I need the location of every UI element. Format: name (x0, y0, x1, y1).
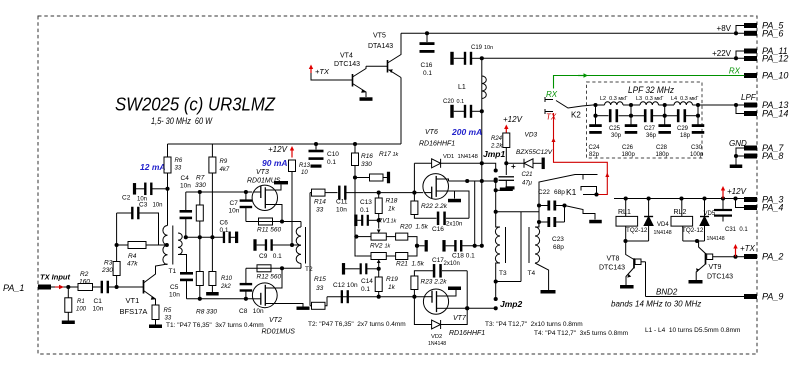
wire TX red route (554, 113, 608, 195)
capacitor C16 2x10n (414, 212, 469, 226)
svg-text:2x10n: 2x10n (446, 222, 462, 228)
resistor R18 1k (375, 193, 398, 214)
terminal R17 end (387, 172, 390, 184)
svg-text:0.1: 0.1 (327, 159, 336, 166)
svg-text:R13: R13 (299, 163, 311, 169)
node C23 left (537, 220, 541, 224)
svg-text:PA_14: PA_14 (762, 109, 788, 119)
capacitor C16 0.1 (top) (420, 33, 435, 77)
svg-text:LPF: LPF (741, 93, 757, 102)
capacitor C29 18p (677, 109, 691, 139)
node VT2 drain (280, 266, 284, 270)
node VD3 anode (504, 161, 508, 165)
label C3 10n (139, 202, 163, 209)
resistor R10 2k2 (209, 237, 233, 292)
node drain row b (480, 179, 484, 183)
arrow RX direction (578, 73, 588, 77)
label L1 (458, 84, 466, 91)
svg-text:+12V: +12V (268, 145, 288, 154)
wire R13 to T2 centre (291, 172, 293, 246)
label GND (729, 139, 747, 148)
svg-text:L1 - L4 10 turns D5.5mm 0.8mm: L1 - L4 10 turns D5.5mm 0.8mm (645, 327, 740, 334)
label VD3 (516, 132, 553, 157)
power +12V arrow (R24) (504, 125, 508, 134)
wire BND2 to PA_9 (646, 296, 745, 298)
svg-text:BND2: BND2 (656, 288, 678, 297)
svg-text:DTC143: DTC143 (334, 61, 360, 68)
node on +12V rail (702, 196, 706, 200)
svg-text:C28: C28 (656, 145, 668, 151)
node C8 gate (244, 297, 248, 301)
svg-text:PA_6: PA_6 (762, 29, 783, 39)
svg-text:TX: TX (546, 113, 557, 122)
svg-text:C10: C10 (327, 151, 339, 158)
inductor L1 (482, 76, 487, 99)
wire VT8 base from BND2 (645, 262, 647, 297)
svg-text:+: + (511, 162, 516, 171)
svg-text:T1: T1 (169, 268, 177, 275)
transformer T4 (528, 222, 549, 290)
note T3 winding (485, 321, 583, 328)
label TX Input (40, 273, 70, 282)
node R3 R4 (115, 243, 119, 247)
diode VD3 BZX55C12V (524, 159, 542, 168)
wire R24 to VD3 (506, 148, 524, 164)
svg-text:RL2: RL2 (674, 209, 687, 216)
label +12V (R24) (503, 115, 523, 124)
label C21 47u (522, 172, 533, 187)
svg-text:33: 33 (165, 316, 172, 322)
label LPF 32 MHz (628, 85, 674, 95)
wire +22V branch to PA_11 (736, 51, 745, 58)
wire drain to T2 bottom (300, 264, 302, 269)
wire riser VT6 drain tie (481, 58, 483, 163)
svg-text:R1: R1 (77, 299, 85, 305)
label C5 10n (169, 284, 180, 299)
svg-text:C8 10n: C8 10n (239, 308, 264, 315)
node LPF mid (663, 114, 667, 118)
svg-text:12 mA: 12 mA (140, 162, 166, 172)
label 90 mA (262, 158, 288, 168)
node LPF top (696, 103, 700, 107)
svg-text:PA_2: PA_2 (762, 252, 783, 262)
svg-text:RD16HHF1: RD16HHF1 (419, 141, 455, 148)
connector pad PA_11 (744, 46, 788, 56)
wire gate feedback wire VT6 (347, 192, 424, 194)
svg-text:R8 330: R8 330 (196, 309, 217, 316)
svg-text:T2: "P47 T6,35" 2x7 turns 0.4: T2: "P47 T6,35" 2x7 turns 0.4mm (308, 321, 406, 328)
diode VD1 1N4148 (414, 159, 481, 168)
label VT5 (368, 33, 393, 51)
capacitor C24 82p (589, 116, 602, 158)
terminal C18 left (417, 240, 428, 252)
ground R10 (206, 292, 219, 296)
svg-text:TQ2-12: TQ2-12 (626, 227, 648, 234)
note T4 winding (534, 330, 628, 337)
svg-text:DTC143: DTC143 (707, 274, 733, 281)
connector pad PA_10 (744, 71, 788, 81)
svg-text:10n: 10n (169, 292, 180, 299)
svg-text:C9 0.1: C9 0.1 (259, 253, 282, 260)
wire RX (green) (554, 76, 745, 89)
label C11 10n (336, 199, 348, 214)
svg-text:VT1: VT1 (126, 296, 140, 305)
svg-text:R4: R4 (128, 253, 137, 260)
svg-text:VD1 1N4148: VD1 1N4148 (443, 154, 478, 160)
wire bias rail RV2 (355, 237, 356, 256)
node VT3 drain (280, 219, 284, 223)
wire C23 right riser (564, 206, 566, 223)
svg-text:RX: RX (729, 67, 741, 76)
svg-text:0.1: 0.1 (220, 227, 229, 234)
svg-text:10n: 10n (229, 208, 240, 215)
node LPF out junction (734, 103, 738, 107)
label C1 10n (93, 298, 104, 313)
svg-text:1N4148: 1N4148 (707, 236, 725, 242)
wire drain to T2 top (300, 222, 302, 228)
label 12 mA (140, 162, 166, 172)
wire RL2 coil leads (682, 199, 683, 242)
svg-text:10: 10 (301, 170, 308, 176)
label C22 68p (538, 189, 565, 196)
wire gate bias rail +12V (168, 143, 402, 145)
svg-text:C14: C14 (361, 278, 373, 285)
svg-text:R24: R24 (491, 136, 503, 142)
resistor R19 1k (375, 269, 398, 297)
svg-text:C30: C30 (691, 145, 703, 151)
connector pad PA_1 (3, 283, 51, 293)
node VD1 out (480, 161, 484, 165)
capacitor C18 0.1 x2 (442, 240, 481, 252)
svg-text:C29: C29 (677, 126, 689, 132)
svg-text:T2: T2 (305, 266, 313, 273)
label C8 10n (239, 308, 264, 315)
jumper Jmp1 (482, 163, 498, 212)
resistor R11 560 (257, 218, 281, 234)
svg-text:C23: C23 (552, 236, 564, 243)
jumper Jmp2 (449, 282, 498, 311)
svg-text:36p: 36p (646, 133, 657, 139)
label BND2 (656, 288, 678, 297)
svg-text:C27: C27 (644, 126, 656, 132)
node on +12V rail (624, 196, 628, 200)
svg-text:+12V: +12V (727, 187, 747, 196)
capacitor C14 0.1 (342, 263, 379, 275)
svg-text:1N4148: 1N4148 (428, 341, 446, 347)
transistor VT4 DTC143 (353, 66, 367, 97)
svg-text:30p: 30p (611, 133, 622, 139)
inductor L3 (636, 96, 664, 105)
svg-text:+8V: +8V (717, 24, 732, 33)
wire VT5 emitter riser (400, 78, 402, 145)
ground R1 (62, 321, 75, 325)
label C14 0.1 (361, 278, 373, 293)
svg-text:R19: R19 (386, 276, 398, 283)
node R19 bottom (377, 295, 381, 299)
wire +8V rail (401, 32, 745, 34)
connector pad PA_3 (744, 195, 783, 205)
node R7 top (198, 190, 202, 194)
label RD01MUS (VT3) (247, 178, 281, 185)
label VD5 (704, 211, 725, 242)
title SW2025 (c) UR3LMZ (115, 94, 276, 115)
svg-text:BFS17A: BFS17A (120, 307, 148, 316)
label +TX (VT4) (315, 67, 330, 76)
node LPF top (593, 103, 597, 107)
wire LPF output to PA_13 (702, 104, 745, 106)
wire C18 row left (416, 237, 418, 256)
svg-text:SW2025 (c) UR3LMZ: SW2025 (c) UR3LMZ (115, 94, 276, 115)
ground VT3 source (top bar) (274, 181, 288, 184)
node R18 top (377, 191, 381, 195)
wire R2 to C1 (93, 286, 101, 288)
label LPF (741, 93, 757, 102)
node T1 tap (165, 243, 169, 247)
node R20 R21 mid (415, 244, 419, 248)
svg-text:C24: C24 (589, 145, 601, 151)
node on +12V rail (721, 196, 725, 200)
svg-text:C20: C20 (443, 99, 455, 105)
label Jmp1 (483, 149, 505, 159)
svg-text:PA_4: PA_4 (762, 203, 783, 213)
resistor R2 160 (78, 271, 93, 291)
mosfet VT3 RD01MUS (252, 185, 282, 222)
node LPF mid (629, 114, 633, 118)
wire branch to PA_4 (736, 199, 745, 208)
resistor R23 2.2k (411, 276, 447, 297)
capacitor C1 10n (101, 281, 144, 294)
label C2 10n (122, 195, 147, 203)
connector pad PA_2 (744, 252, 783, 262)
svg-text:160: 160 (79, 279, 90, 286)
svg-text:C18 0.1: C18 0.1 (452, 253, 475, 260)
label VD2 (428, 334, 446, 347)
svg-text:0.1: 0.1 (457, 99, 465, 105)
capacitor C12 10n (341, 290, 349, 303)
capacitor C13 0.1 (354, 215, 379, 227)
node GND junction (734, 154, 738, 158)
terminal VD3 cathode (542, 158, 545, 170)
capacitor C2 10n (117, 207, 159, 245)
svg-text:1k: 1k (393, 152, 399, 158)
resistor R8 330 (196, 237, 203, 298)
label TX (K2, red) (546, 113, 557, 122)
label C7 10n (229, 200, 240, 215)
resistor R21 1.5k (386, 246, 424, 268)
svg-text:+22V: +22V (712, 49, 732, 58)
svg-text:C16: C16 (421, 62, 433, 69)
capacitor C19 10n (450, 52, 482, 65)
svg-text:PA_1: PA_1 (3, 283, 24, 293)
wire VT4 collector to VT5 base (366, 65, 388, 67)
svg-text:C7: C7 (230, 200, 239, 207)
wire VT2 gate (187, 298, 253, 300)
wire input (51, 286, 78, 288)
svg-text:RD16HHF1: RD16HHF1 (449, 330, 485, 337)
label C16 2x10n (432, 222, 462, 234)
wire VT6 drain junction row (449, 180, 496, 182)
inductor L4 (671, 96, 699, 105)
label C13 0.1 (360, 199, 372, 214)
potentiometer RV1 1k (356, 220, 386, 240)
svg-text:R6: R6 (175, 158, 183, 164)
wire R6 down (167, 173, 169, 226)
node on +12V rail (733, 196, 737, 200)
resistor R13 10 (289, 160, 311, 176)
label C12 10n (333, 282, 358, 289)
label 200 mA (451, 127, 482, 137)
svg-text:VD3: VD3 (525, 132, 538, 139)
svg-text:C22: C22 (538, 189, 550, 196)
switch K2 RX contact (545, 97, 553, 102)
note T2 winding (308, 321, 406, 328)
svg-text:L2 0.3 мкГ: L2 0.3 мкГ (600, 96, 628, 102)
resistor R16 330 (352, 144, 374, 168)
svg-text:10n: 10n (484, 45, 493, 51)
node input R1 (66, 285, 70, 289)
capacitor C8 10n (240, 268, 253, 299)
resistor R24 2.2k (490, 133, 510, 150)
relay RL1 TQ2-12 (616, 209, 648, 234)
svg-text:R5: R5 (164, 308, 172, 314)
svg-text:0.1: 0.1 (361, 286, 370, 293)
ground VT4 emitter (360, 97, 373, 101)
relay RL2 TQ2-12 (671, 209, 704, 234)
svg-text:C1: C1 (94, 298, 103, 305)
svg-text:2.2k: 2.2k (490, 144, 503, 150)
svg-text:L3 0.3 мкГ: L3 0.3 мкГ (636, 96, 664, 102)
node C1 R3 (115, 285, 119, 289)
svg-text:VT8: VT8 (607, 256, 620, 263)
node on +12V rail (647, 196, 651, 200)
connector pad PA_9 (744, 292, 783, 302)
switch K1 common bracket (581, 187, 597, 195)
node bias rail R16 (353, 142, 357, 146)
svg-text:R11 560: R11 560 (257, 227, 281, 234)
svg-text:+TX: +TX (315, 67, 330, 76)
connector pad PA_4 (744, 203, 783, 213)
ground VT2 source (297, 307, 310, 310)
transformer T2 (296, 193, 313, 306)
svg-text:bands 14 MHz to 30 MHz: bands 14 MHz to 30 MHz (611, 300, 701, 309)
wire C22 C23 left rail (538, 206, 540, 228)
ground K1 (589, 220, 602, 224)
label VT2 (269, 317, 282, 324)
svg-text:R16: R16 (361, 153, 373, 160)
wire +TX to PA_2 (736, 256, 745, 258)
transformer T1 (163, 226, 182, 276)
wire GND pads (736, 148, 745, 165)
svg-text:1,5- 30 MHz 60 W: 1,5- 30 MHz 60 W (151, 116, 213, 126)
svg-text:330: 330 (195, 182, 206, 189)
svg-text:2k2: 2k2 (220, 284, 231, 290)
wire T4 top to K1 (539, 175, 598, 206)
label VD1 1N4148 (443, 154, 478, 160)
svg-text:330: 330 (361, 161, 372, 168)
wire mid row (186, 236, 223, 238)
capacitor C30 100p (690, 116, 704, 158)
ground VT7 source (448, 287, 461, 291)
capacitor C5 10n (178, 255, 193, 299)
node on +12V rail (679, 196, 683, 200)
ground C21 (500, 188, 513, 192)
capacitor C23 68p (539, 217, 565, 227)
node T3 link (494, 210, 498, 214)
capacitor C20 0.1 (450, 105, 482, 118)
svg-text:100p: 100p (690, 152, 704, 158)
note L1-L4 winding (645, 327, 740, 334)
ground C10 (311, 165, 322, 168)
wire +8V branch to PA_5 (736, 26, 745, 34)
wire VT6 source bar stub (454, 191, 456, 199)
svg-text:K1: K1 (566, 187, 577, 197)
node T3 rail 190 (494, 188, 498, 192)
label VT6 (425, 129, 438, 136)
wire R18 to RV1 (378, 214, 380, 221)
label RD16HHF1 (VT6) (419, 141, 455, 148)
svg-text:1N4148: 1N4148 (654, 230, 672, 236)
wire VT6 gate rail (413, 163, 415, 192)
capacitor C11 10n (338, 186, 346, 200)
svg-text:10n: 10n (93, 306, 104, 313)
capacitor C28 180p (656, 116, 671, 158)
resistor R6 33 (164, 144, 183, 173)
label RD16HHF1 (VT7) (449, 330, 485, 337)
capacitor C25 30p (609, 109, 622, 139)
transformer T3 (495, 212, 521, 282)
connector pad PA_6 (744, 29, 783, 39)
node C18 left (415, 244, 419, 248)
svg-text:0.1: 0.1 (360, 207, 369, 214)
wire LPF cap rail (596, 105, 699, 116)
label C4 10n (180, 175, 191, 190)
node drain row a (465, 179, 469, 183)
svg-text:10n: 10n (336, 207, 347, 214)
ground VT9 emitter (689, 280, 703, 284)
svg-text:100: 100 (76, 307, 87, 313)
node T2 centre (290, 243, 294, 247)
resistor R14 33 (310, 189, 338, 213)
svg-text:0.1: 0.1 (423, 70, 432, 77)
svg-text:10n: 10n (153, 203, 163, 209)
resistor R20 1.5k (386, 224, 428, 246)
wire riser VT6 drain tie lower (481, 163, 483, 246)
svg-text:180p: 180p (622, 152, 636, 158)
label VT4 (334, 53, 360, 69)
capacitor C31 0.1 (714, 199, 732, 222)
inductor L2 (600, 96, 628, 105)
label +12V (T2) (268, 145, 288, 154)
svg-text:R20 1.5k: R20 1.5k (400, 224, 429, 231)
resistor R1 100 (65, 287, 87, 321)
connector pad PA_5 (744, 21, 784, 31)
svg-text:Jmp1: Jmp1 (483, 149, 505, 159)
transistor VT8 DTC143 (626, 241, 646, 285)
resistor R15 33 (310, 276, 327, 309)
transistor VT5 DTA143 (388, 33, 402, 77)
svg-text:T4: T4 (528, 270, 536, 277)
svg-text:33: 33 (316, 207, 324, 214)
wire RL2 bottom (683, 240, 705, 242)
svg-text:C31 0.1: C31 0.1 (725, 227, 748, 233)
svg-text:RL1: RL1 (618, 209, 631, 216)
wire T3 top feed (496, 189, 510, 191)
ground R5 (149, 325, 162, 329)
node VT7 drain (465, 306, 469, 310)
wire branch to PA_14 (736, 105, 745, 114)
subtitle 1,5- 30 MHz 60 W (151, 116, 213, 126)
node T3 rail top (494, 179, 498, 183)
